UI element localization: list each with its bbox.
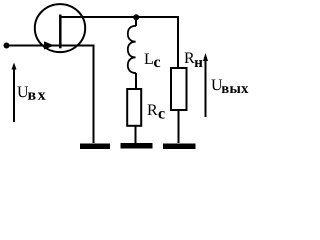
label Lc: [145, 54, 153, 65]
label U_vx: [17, 87, 28, 98]
output voltage arrow: [205, 57, 207, 117]
wire from junction down to inductor: [135, 17, 137, 26]
inductor Lc coil: [128, 26, 136, 73]
resistor Rc body: [127, 89, 141, 126]
label Rc: [148, 105, 158, 116]
wire Rn to ground: [178, 110, 180, 143]
ground under source: [80, 144, 110, 150]
ground under Rc: [121, 143, 153, 149]
wire inductor to resistor Rc: [135, 73, 137, 88]
wire drain to top rail: [60, 17, 178, 67]
ground under Rn: [163, 144, 196, 150]
label Rn: [185, 53, 195, 64]
transistor VT1 circle: [35, 4, 85, 52]
wire Rc to ground: [135, 127, 137, 144]
input voltage arrow: [13, 66, 15, 122]
node input terminal dot: [4, 43, 10, 49]
node junction dot on top rail: [133, 14, 139, 20]
transistor VT1 gate arrow: [44, 41, 55, 49]
label U_vyx: [211, 80, 222, 91]
wire source line and down to ground: [61, 46, 94, 144]
resistor Rn body: [171, 68, 187, 110]
wire gate input line: [7, 45, 60, 47]
transistor VT1 channel bar: [59, 15, 62, 49]
